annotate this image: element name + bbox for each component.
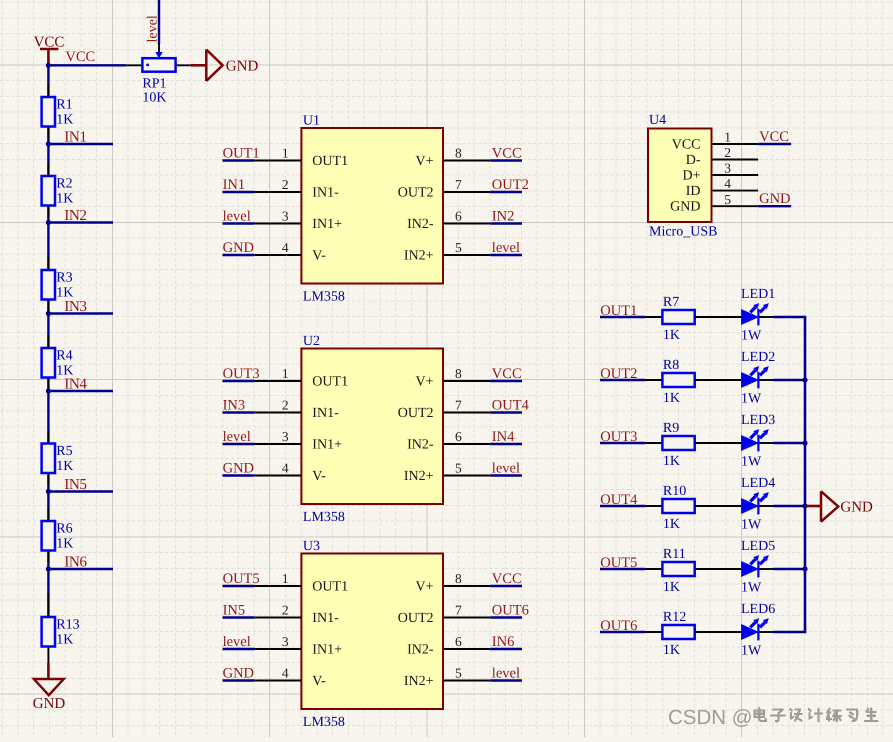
svg-text:VCC: VCC — [672, 137, 701, 152]
pin 2 of U3 (IN1-) — [254, 602, 339, 626]
pin 8 of U3 (V+) — [415, 571, 490, 595]
resistor R8 1K (horizontal) — [662, 358, 694, 406]
svg-text:OUT2: OUT2 — [492, 177, 529, 193]
svg-text:LM358: LM358 — [303, 715, 345, 730]
svg-text:GND: GND — [223, 240, 254, 256]
wire net OUT6 to R12 — [600, 631, 645, 633]
wire net level at U1 pin 3 — [223, 222, 255, 224]
wire net OUT5 at U3 pin 1 — [223, 585, 255, 587]
wire net IN1 at U1 pin 2 — [223, 191, 255, 193]
pin 2 of R7 and anode pin of LED1 — [695, 316, 742, 318]
svg-text:1W: 1W — [741, 329, 762, 344]
cathode pin of LED2 — [759, 379, 773, 381]
wire net OUT3 to R9 — [600, 442, 645, 444]
wire net VCC at U3 pin 8 — [490, 585, 522, 587]
svg-text:3: 3 — [282, 429, 289, 444]
pin 5 of U1 (IN2+) — [404, 240, 490, 264]
pin 6 of U3 (IN2-) — [407, 634, 490, 658]
svg-text:OUT3: OUT3 — [223, 366, 260, 382]
svg-text:R12: R12 — [663, 610, 686, 625]
resistor R13 1K (vertical) — [42, 593, 80, 664]
resistor R9 1K (horizontal) — [662, 421, 694, 469]
resistor R1 1K (vertical) — [42, 84, 74, 139]
pin 8 of U1 (V+) — [415, 145, 490, 169]
svg-text:LED3: LED3 — [741, 413, 775, 428]
svg-text:level: level — [223, 209, 251, 225]
svg-text:LM358: LM358 — [303, 290, 345, 305]
svg-text:1K: 1K — [663, 328, 680, 343]
pin 7 of U3 (OUT2) — [398, 602, 490, 626]
svg-text:IN5: IN5 — [64, 476, 86, 493]
wire net OUT6 at U3 pin 7 — [490, 616, 522, 618]
junction IN6 — [46, 566, 51, 571]
wire net OUT5 to R11 — [600, 568, 645, 570]
svg-text:R10: R10 — [663, 484, 686, 499]
svg-text:V-: V- — [312, 674, 326, 689]
power port GND (top, right of RP1) — [191, 50, 259, 82]
power port VCC (top-left) — [34, 35, 65, 66]
svg-text:1K: 1K — [56, 192, 73, 207]
pin 2 wiper of RP1 with arrow — [155, 44, 162, 58]
svg-text:1W: 1W — [741, 455, 762, 470]
svg-text:1W: 1W — [741, 644, 762, 659]
wire net IN4 at U2 pin 6 — [490, 443, 522, 445]
pin 5 of U3 (IN2+) — [404, 665, 490, 689]
pin 2 of R8 and anode pin of LED2 — [695, 379, 742, 381]
pin 5 of U2 (IN2+) — [404, 460, 490, 484]
svg-text:IN2-: IN2- — [407, 643, 434, 658]
wire stub net IN6 — [48, 568, 113, 570]
wire VCC horizontal — [48, 64, 126, 66]
svg-text:OUT2: OUT2 — [398, 611, 434, 626]
svg-text:R7: R7 — [663, 295, 679, 310]
junction bus at y=506 — [802, 503, 807, 508]
svg-text:IN1: IN1 — [64, 128, 86, 145]
wire LED2 to bus — [774, 379, 807, 381]
diode LED6 1W — [741, 602, 775, 659]
svg-text:IN1: IN1 — [223, 177, 246, 193]
wire net VCC at U1 pin 8 — [490, 159, 522, 161]
wire stub net IN1 — [48, 143, 113, 145]
svg-text:6: 6 — [455, 429, 462, 444]
svg-text:1W: 1W — [741, 581, 762, 596]
svg-text:IN1-: IN1- — [312, 406, 339, 421]
wire net GND at U2 pin 4 — [223, 474, 255, 476]
pin 1 of RP1 — [126, 64, 142, 66]
svg-text:10K: 10K — [142, 91, 166, 106]
connector U4 Micro_USB body — [648, 129, 712, 223]
watermark CSDN — [668, 706, 877, 729]
pin 3 of U3 (IN1+) — [254, 634, 342, 658]
svg-text:OUT2: OUT2 — [398, 406, 434, 421]
svg-text:6: 6 — [455, 208, 462, 223]
svg-text:1K: 1K — [663, 643, 680, 658]
svg-text:R9: R9 — [663, 421, 679, 436]
junction bus at y=380 — [802, 377, 807, 382]
pin 8 of U2 (V+) — [415, 366, 490, 390]
svg-text:IN1+: IN1+ — [312, 643, 342, 658]
wire LED1 to bus — [774, 316, 807, 318]
svg-text:V+: V+ — [415, 154, 433, 169]
wire net OUT2 to R8 — [600, 379, 645, 381]
resistor R3 1K (vertical) — [42, 257, 74, 312]
svg-text:ID: ID — [686, 184, 701, 199]
svg-text:OUT1: OUT1 — [223, 146, 260, 162]
pin 1 of U2 (OUT1) — [254, 366, 348, 390]
svg-text:V+: V+ — [415, 375, 433, 390]
svg-text:IN2+: IN2+ — [404, 469, 434, 484]
svg-text:RP1: RP1 — [142, 77, 166, 92]
wire net IN5 at U3 pin 2 — [223, 616, 255, 618]
wire net IN3 at U2 pin 2 — [223, 411, 255, 413]
wire ladder vertical — [47, 65, 49, 617]
svg-text:2: 2 — [724, 145, 731, 160]
wire net level at U2 pin 5 — [490, 474, 522, 476]
svg-text:VCC: VCC — [492, 146, 522, 162]
svg-text:U1: U1 — [303, 114, 320, 129]
wire LED6 to bus — [774, 631, 807, 633]
svg-text:VCC: VCC — [492, 366, 522, 382]
pin 6 of U2 (IN2-) — [407, 429, 490, 453]
cathode pin of LED4 — [759, 505, 773, 507]
svg-text:7: 7 — [455, 177, 462, 192]
svg-text:OUT1: OUT1 — [312, 580, 348, 595]
junction bus at y=569 — [802, 566, 807, 571]
pin 1 of R10 — [645, 505, 662, 507]
junction IN1 — [46, 141, 51, 146]
svg-text:OUT4: OUT4 — [492, 398, 530, 414]
svg-text:OUT1: OUT1 — [312, 375, 348, 390]
pin 2 of U1 (IN1-) — [254, 177, 339, 201]
wire stub net IN4 — [48, 390, 113, 392]
pin 1 of R9 — [645, 442, 662, 444]
svg-text:OUT5: OUT5 — [223, 571, 260, 587]
svg-text:D-: D- — [686, 153, 701, 168]
resistor R6 1K (vertical) — [42, 508, 74, 563]
svg-text:4: 4 — [724, 176, 731, 191]
wire net level at U2 pin 3 — [223, 443, 255, 445]
wire stub net IN3 — [48, 312, 113, 314]
svg-text:8: 8 — [455, 571, 462, 586]
ground GND (bottom of ladder) — [33, 663, 66, 712]
svg-text:1: 1 — [282, 366, 289, 381]
diode LED4 1W — [741, 476, 775, 533]
wire stub net IN2 — [48, 221, 113, 223]
svg-text:1: 1 — [724, 130, 731, 145]
svg-text:1K: 1K — [56, 633, 73, 648]
resistor R12 1K (horizontal) — [662, 610, 694, 658]
svg-text:LED1: LED1 — [741, 287, 775, 302]
svg-text:IN2: IN2 — [64, 207, 86, 224]
wire net OUT3 at U2 pin 1 — [223, 380, 255, 382]
wire LED common bus (vertical) — [804, 317, 807, 632]
svg-text:IN2+: IN2+ — [404, 674, 434, 689]
svg-text:7: 7 — [455, 602, 462, 617]
wire net GND at U4 pin 5 — [758, 205, 791, 207]
pin 7 of U2 (OUT2) — [398, 397, 490, 421]
svg-text:GND: GND — [670, 200, 700, 215]
svg-text:OUT6: OUT6 — [492, 603, 529, 619]
svg-text:IN2: IN2 — [492, 209, 515, 225]
svg-text:1W: 1W — [741, 518, 762, 533]
pin 2 of R10 and anode pin of LED4 — [695, 505, 742, 507]
pin 1 of R12 — [645, 631, 662, 633]
svg-text:IN4: IN4 — [64, 375, 87, 392]
pin 4 of U2 (V-) — [254, 460, 326, 484]
wire LED5 to bus — [774, 568, 807, 570]
pin 2 of R9 and anode pin of LED3 — [695, 442, 742, 444]
svg-text:IN6: IN6 — [492, 634, 515, 650]
svg-text:D+: D+ — [682, 168, 700, 183]
wire net VCC at U4 pin 1 — [758, 143, 791, 145]
diode LED3 1W — [741, 413, 775, 470]
cathode pin of LED1 — [759, 316, 773, 318]
wire net OUT1 at U1 pin 1 — [223, 159, 255, 161]
svg-text:level: level — [223, 634, 251, 650]
svg-text:level: level — [492, 666, 520, 682]
pin 3 of U2 (IN1+) — [254, 429, 342, 453]
svg-text:V-: V- — [312, 469, 326, 484]
pin 7 of U1 (OUT2) — [398, 177, 490, 201]
wire level (vertical, top) — [158, 0, 160, 44]
svg-text:LED5: LED5 — [741, 539, 775, 554]
svg-text:R8: R8 — [663, 358, 679, 373]
cathode pin of LED6 — [759, 631, 773, 633]
wire net OUT4 at U2 pin 7 — [490, 411, 522, 413]
resistor R10 1K (horizontal) — [662, 484, 694, 532]
svg-text:IN3: IN3 — [64, 298, 86, 315]
svg-text:level: level — [223, 429, 251, 445]
svg-text:LED6: LED6 — [741, 602, 775, 617]
resistor R7 1K (horizontal) — [662, 295, 694, 343]
svg-text:CSDN @: CSDN @ — [668, 706, 753, 729]
junction bus at y=443 — [802, 440, 807, 445]
svg-text:GND: GND — [759, 191, 790, 207]
svg-text:5: 5 — [455, 460, 462, 475]
svg-text:2: 2 — [282, 602, 289, 617]
pin 6 of U1 (IN2-) — [407, 208, 490, 232]
pin 1 of R7 — [645, 316, 662, 318]
wire net IN2 at U1 pin 6 — [490, 222, 522, 224]
wire net level at U1 pin 5 — [490, 254, 522, 256]
svg-text:U2: U2 — [303, 334, 320, 349]
cathode pin of LED5 — [759, 568, 773, 570]
resistor RP1 10K body — [142, 58, 175, 71]
wire LED4 to bus — [774, 505, 807, 507]
svg-text:1: 1 — [282, 145, 289, 160]
junction VCC node — [46, 63, 51, 68]
svg-text:Micro_USB: Micro_USB — [649, 225, 717, 240]
svg-text:R11: R11 — [663, 547, 686, 562]
power port GND (right of LED bus) — [805, 491, 873, 521]
svg-text:8: 8 — [455, 145, 462, 160]
svg-text:IN3: IN3 — [223, 398, 246, 414]
wire net level at U3 pin 5 — [490, 679, 522, 681]
junction IN4 — [46, 388, 51, 393]
pin 4 of U3 (V-) — [254, 665, 326, 689]
pin 1 of U3 (OUT1) — [254, 571, 348, 595]
svg-text:8: 8 — [455, 366, 462, 381]
pin 1 of U4 (VCC) — [672, 130, 758, 153]
svg-text:5: 5 — [724, 192, 731, 207]
pin 2 of U2 (IN1-) — [254, 397, 339, 421]
wire LED3 to bus — [774, 442, 807, 444]
svg-text:IN1+: IN1+ — [312, 217, 342, 232]
pin 4 of U4 (ID) — [686, 176, 758, 199]
svg-text:IN6: IN6 — [64, 553, 87, 570]
resistor R5 1K (vertical) — [42, 431, 74, 486]
svg-text:3: 3 — [724, 161, 731, 176]
svg-text:R5: R5 — [56, 444, 72, 459]
svg-text:IN2+: IN2+ — [404, 249, 434, 264]
wire net GND at U3 pin 4 — [223, 679, 255, 681]
junction IN2 — [46, 220, 51, 225]
svg-text:U3: U3 — [303, 539, 320, 554]
svg-text:R1: R1 — [56, 98, 72, 113]
svg-text:1K: 1K — [56, 537, 73, 552]
svg-text:VCC: VCC — [759, 129, 789, 145]
svg-text:1W: 1W — [741, 392, 762, 407]
svg-text:V-: V- — [312, 249, 326, 264]
svg-text:GND: GND — [840, 499, 873, 515]
resistor R4 1K (vertical) — [42, 335, 74, 390]
diode LED5 1W — [741, 539, 775, 596]
svg-text:2: 2 — [282, 177, 289, 192]
svg-text:R6: R6 — [56, 522, 72, 537]
pin 5 of U4 (GND) — [670, 192, 758, 215]
wire net level at U3 pin 3 — [223, 648, 255, 650]
svg-text:VCC: VCC — [65, 49, 95, 65]
svg-text:R2: R2 — [56, 177, 72, 192]
pin 1 of R11 — [645, 568, 662, 570]
svg-text:OUT2: OUT2 — [398, 186, 434, 201]
svg-text:R13: R13 — [56, 618, 79, 633]
wire net OUT1 to R7 — [600, 316, 645, 318]
svg-text:IN2-: IN2- — [407, 438, 434, 453]
svg-text:OUT1: OUT1 — [312, 154, 348, 169]
svg-text:level: level — [492, 240, 520, 256]
svg-text:1K: 1K — [663, 391, 680, 406]
svg-text:R3: R3 — [56, 271, 72, 286]
diode LED1 1W — [741, 287, 775, 344]
pin 2 of R12 and anode pin of LED6 — [695, 631, 742, 633]
svg-text:2: 2 — [282, 397, 289, 412]
wire net OUT4 to R10 — [600, 505, 645, 507]
pin 3 of U1 (IN1+) — [254, 208, 342, 232]
svg-text:U4: U4 — [649, 113, 666, 128]
svg-text:7: 7 — [455, 397, 462, 412]
pin 4 of U1 (V-) — [254, 240, 326, 264]
svg-text:LED2: LED2 — [741, 350, 775, 365]
svg-text:1K: 1K — [663, 580, 680, 595]
wire net OUT2 at U1 pin 7 — [490, 191, 522, 193]
svg-text:V+: V+ — [415, 580, 433, 595]
svg-text:GND: GND — [223, 461, 254, 477]
svg-text:1K: 1K — [56, 113, 73, 128]
svg-text:3: 3 — [282, 208, 289, 223]
op-amp U2 LM358 body — [301, 349, 443, 505]
op-amp U1 LM358 body — [301, 128, 443, 284]
pin 1 of R8 — [645, 379, 662, 381]
pin 3 of RP1 — [176, 64, 191, 66]
svg-text:4: 4 — [282, 240, 289, 255]
junction IN5 — [46, 489, 51, 494]
resistor R2 1K (vertical) — [42, 163, 74, 218]
svg-text:IN4: IN4 — [492, 429, 515, 445]
svg-text:IN1+: IN1+ — [312, 438, 342, 453]
pin 3 of U4 (D+) — [682, 161, 758, 184]
svg-text:1K: 1K — [663, 454, 680, 469]
svg-text:4: 4 — [282, 665, 289, 680]
svg-text:IN1-: IN1- — [312, 611, 339, 626]
pin 1 of U1 (OUT1) — [254, 145, 348, 169]
svg-text:level: level — [492, 461, 520, 477]
svg-text:IN2-: IN2- — [407, 217, 434, 232]
svg-text:level: level — [146, 15, 161, 42]
svg-text:GND: GND — [223, 666, 254, 682]
svg-text:LED4: LED4 — [741, 476, 775, 491]
resistor R11 1K (horizontal) — [662, 547, 694, 595]
junction IN3 — [46, 311, 51, 316]
svg-text:IN5: IN5 — [223, 603, 246, 619]
wire stub net IN5 — [48, 490, 113, 492]
svg-text:LM358: LM358 — [303, 510, 345, 525]
svg-text:GND: GND — [226, 58, 259, 74]
svg-text:1K: 1K — [56, 459, 73, 474]
wire net VCC at U2 pin 8 — [490, 380, 522, 382]
svg-text:1: 1 — [282, 571, 289, 586]
svg-text:1K: 1K — [663, 517, 680, 532]
svg-text:5: 5 — [455, 665, 462, 680]
cathode pin of LED3 — [759, 442, 773, 444]
pin 2 of R11 and anode pin of LED5 — [695, 568, 742, 570]
op-amp U3 LM358 body — [301, 554, 443, 710]
diode LED2 1W — [741, 350, 775, 407]
svg-text:5: 5 — [455, 240, 462, 255]
svg-text:3: 3 — [282, 634, 289, 649]
wire net GND at U1 pin 4 — [223, 254, 255, 256]
pin 2 of U4 (D-) — [686, 145, 758, 168]
svg-text:IN1-: IN1- — [312, 186, 339, 201]
svg-text:VCC: VCC — [492, 571, 522, 587]
svg-text:R4: R4 — [56, 349, 72, 364]
wire net IN6 at U3 pin 6 — [490, 648, 522, 650]
svg-text:GND: GND — [33, 696, 66, 712]
svg-text:4: 4 — [282, 460, 289, 475]
svg-text:6: 6 — [455, 634, 462, 649]
